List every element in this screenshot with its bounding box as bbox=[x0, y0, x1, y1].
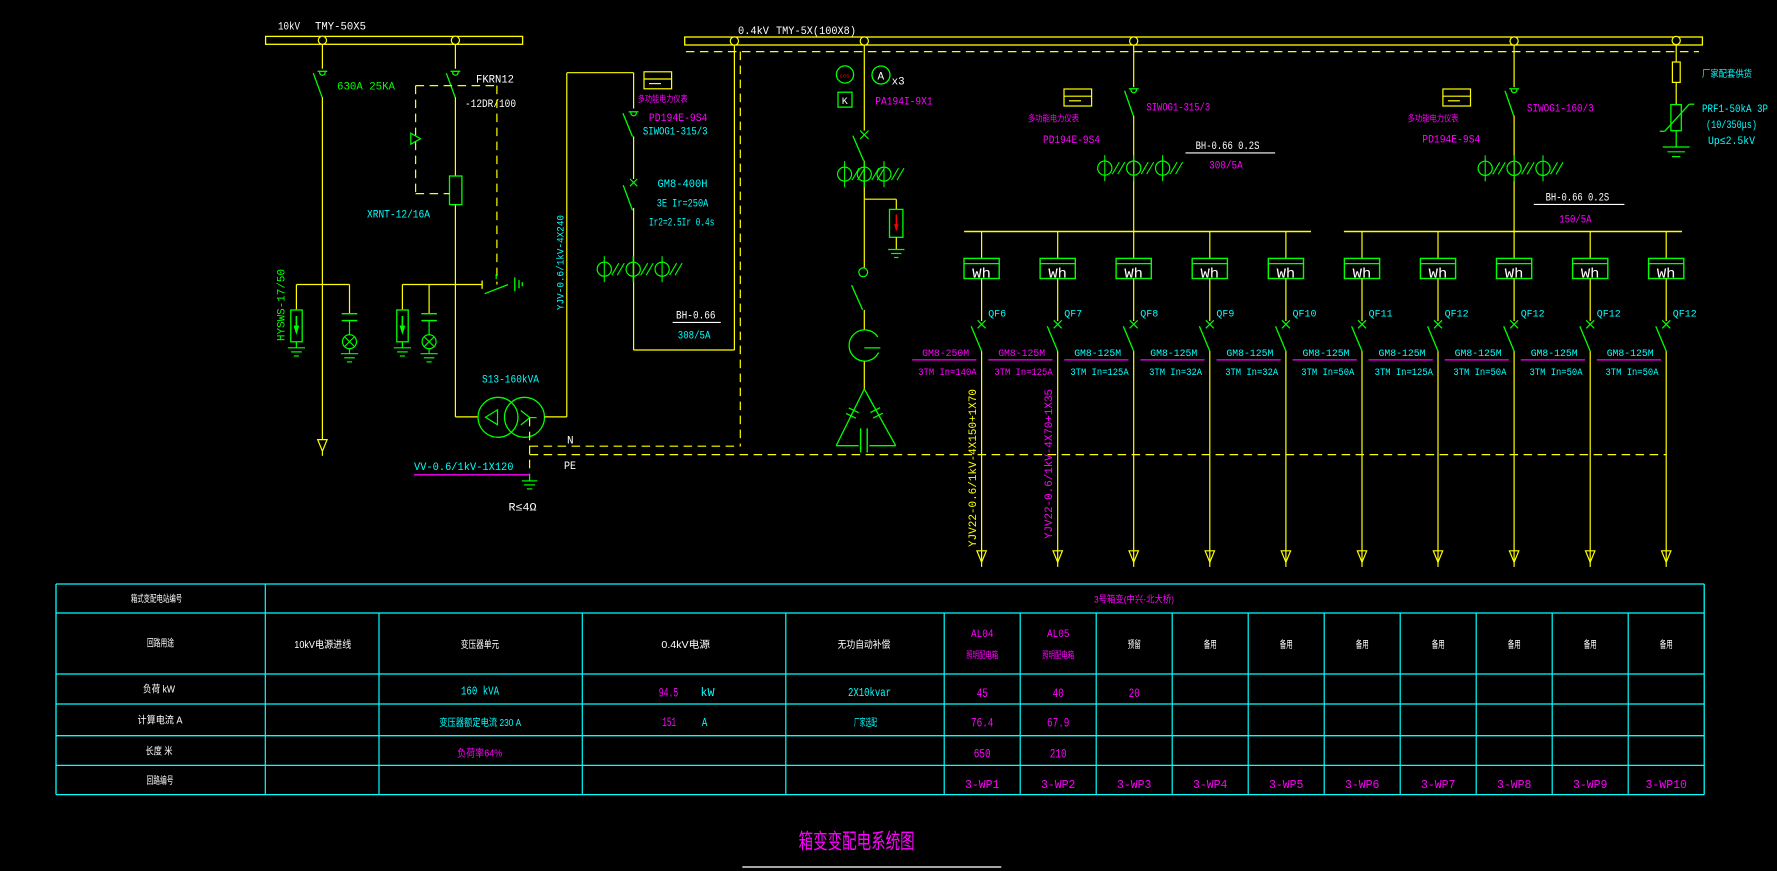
svg-text:BH-0.66 0.2S: BH-0.66 0.2S bbox=[1546, 193, 1610, 205]
svg-text:GM8-125M: GM8-125M bbox=[1379, 348, 1426, 360]
wire feeder 8 down to exit arrow bbox=[1513, 351, 1515, 562]
arrow outgoing feeder 6 bbox=[1357, 551, 1366, 563]
svg-text:S13-160kVA: S13-160kVA bbox=[482, 375, 539, 387]
svg-text:变压器单元: 变压器单元 bbox=[461, 638, 500, 651]
node junction on 10kV bus (feeder B) bbox=[451, 36, 459, 44]
svg-text:备用: 备用 bbox=[1660, 638, 1673, 651]
svg-text:3-WP10: 3-WP10 bbox=[1646, 778, 1687, 792]
svg-text:67.9: 67.9 bbox=[1047, 716, 1069, 730]
svg-text:BH-0.66: BH-0.66 bbox=[676, 311, 716, 323]
arrow outgoing feeder 1 bbox=[977, 551, 986, 563]
wire bbox=[1133, 116, 1135, 232]
cos-phi meter bbox=[836, 66, 853, 83]
fuse XRNT-12/16A bbox=[450, 176, 462, 205]
wire feeder 8 drop from bar bbox=[1513, 232, 1515, 259]
arrow outgoing feeder 3 bbox=[1129, 551, 1138, 563]
0.4kV busbar TMY-5X(100X8) bbox=[685, 37, 1703, 45]
wire feeder 10 drop from bar bbox=[1665, 232, 1667, 259]
wire feeder 5 drop from bar bbox=[1285, 232, 1287, 259]
fuse (SPD) bbox=[1672, 62, 1680, 82]
svg-text:GM8-125M: GM8-125M bbox=[1607, 348, 1654, 360]
svg-text:FKRN12: FKRN12 bbox=[476, 75, 514, 87]
wire feeder B below fuse to transformer bbox=[454, 205, 456, 417]
svg-text:GM8-125M: GM8-125M bbox=[1150, 348, 1197, 360]
svg-text:3-WP4: 3-WP4 bbox=[1193, 778, 1228, 792]
current transformers BH-0.66 0.2S 300/5A bbox=[1104, 155, 1106, 181]
svg-text:0.4kV: 0.4kV bbox=[738, 26, 769, 38]
svg-text:630A 25KA: 630A 25KA bbox=[337, 82, 395, 94]
wire feeder A drop from 10kV bus bbox=[321, 44, 323, 68]
svg-text:负荷 kW: 负荷 kW bbox=[143, 683, 175, 696]
svg-text:3-WP5: 3-WP5 bbox=[1269, 778, 1304, 792]
energy meter Wh (feeder 4) bbox=[1192, 258, 1227, 278]
svg-text:10kV: 10kV bbox=[278, 22, 300, 34]
capacitive indicator lamp (feeder A) bbox=[349, 285, 351, 314]
fuse/arrester with striker bbox=[890, 209, 903, 237]
wire bbox=[1589, 279, 1591, 322]
svg-text:3TM In=125A: 3TM In=125A bbox=[1375, 368, 1433, 379]
energy meter Wh (feeder 8) bbox=[1497, 258, 1532, 278]
wire bbox=[1675, 131, 1677, 147]
svg-text:3-WP6: 3-WP6 bbox=[1345, 778, 1380, 792]
disconnect switch SIWOG1-315/3 (group C) bbox=[1129, 88, 1139, 90]
svg-text:3-WP2: 3-WP2 bbox=[1041, 778, 1076, 792]
wire metering loop to 0.4kV bus bbox=[634, 349, 735, 351]
wire bbox=[1057, 279, 1059, 322]
wire feeder 3 drop from bar bbox=[1133, 232, 1135, 259]
wire branch to discharge arrester bbox=[864, 198, 896, 200]
svg-text:3TM In=125A: 3TM In=125A bbox=[1070, 368, 1128, 379]
table grid bbox=[56, 583, 1704, 585]
svg-text:TMY-5X(100X8): TMY-5X(100X8) bbox=[776, 26, 856, 38]
wire bbox=[1675, 82, 1677, 104]
svg-text:备用: 备用 bbox=[1432, 638, 1445, 651]
svg-text:GM8-125M: GM8-125M bbox=[998, 348, 1045, 360]
interlock indicator triangle bbox=[411, 133, 421, 144]
current transformers (compensation) bbox=[844, 161, 846, 187]
svg-text:QF12: QF12 bbox=[1521, 309, 1545, 321]
wire feeder 7 drop from bar bbox=[1437, 232, 1439, 259]
earthing switch on feeder B bbox=[481, 281, 483, 289]
svg-text:厂家选配: 厂家选配 bbox=[854, 716, 877, 729]
svg-text:备用: 备用 bbox=[1280, 638, 1293, 651]
svg-text:照明配电箱: 照明配电箱 bbox=[1042, 650, 1074, 662]
svg-text:VV-0.6/1kV-1X120: VV-0.6/1kV-1X120 bbox=[414, 462, 514, 474]
wire feeder 5 down to exit arrow bbox=[1285, 351, 1287, 562]
disconnect switch QS1 630A 25KA bbox=[318, 70, 328, 72]
10kV busbar TMY-50X5 bbox=[266, 36, 523, 44]
node junction on 10kV bus (feeder A) bbox=[318, 36, 326, 44]
svg-text:3-WP8: 3-WP8 bbox=[1497, 778, 1532, 792]
svg-text:3TM In=50A: 3TM In=50A bbox=[1453, 368, 1506, 379]
disconnect switch SIWOG1-315/3 bbox=[633, 73, 635, 109]
svg-text:3TM In=50A: 3TM In=50A bbox=[1530, 368, 1583, 379]
wire bbox=[1285, 279, 1287, 322]
svg-text:SIWOG1-160/3: SIWOG1-160/3 bbox=[1527, 104, 1594, 116]
wire bbox=[1665, 279, 1667, 322]
wire bbox=[1513, 116, 1515, 232]
svg-text:GM8-250M: GM8-250M bbox=[922, 348, 969, 360]
arrow outgoing feeder 10 bbox=[1662, 551, 1671, 563]
energy meter Wh (feeder 5) bbox=[1268, 258, 1303, 278]
svg-text:300/5A: 300/5A bbox=[1209, 161, 1243, 173]
svg-text:QF7: QF7 bbox=[1064, 309, 1082, 321]
svg-text:3E Ir=250A: 3E Ir=250A bbox=[657, 199, 709, 211]
wire feeder 3 down to exit arrow bbox=[1133, 351, 1135, 562]
disconnect switch QS2 (FKRN12) bbox=[451, 70, 461, 72]
svg-text:QF8: QF8 bbox=[1140, 309, 1158, 321]
wire bbox=[863, 310, 865, 330]
svg-text:照明配电箱: 照明配电箱 bbox=[966, 650, 998, 662]
earthing conductor VV-0.6/1kV-1X120 bbox=[414, 474, 530, 476]
wire tee (feeder B accessories) bbox=[402, 284, 482, 286]
energy meter Wh (feeder 7) bbox=[1420, 258, 1455, 278]
wire bbox=[1513, 279, 1515, 322]
current transformers BH-0.66 0.2S 150/5A bbox=[1484, 155, 1486, 181]
svg-text:210: 210 bbox=[1050, 747, 1067, 761]
energy meter Wh (feeder 9) bbox=[1573, 258, 1608, 278]
svg-text:QF11: QF11 bbox=[1369, 309, 1393, 321]
svg-text:308/5A: 308/5A bbox=[678, 331, 711, 343]
arrow outgoing feeder 9 bbox=[1586, 551, 1595, 563]
svg-text:箱变变配电系统图: 箱变变配电系统图 bbox=[799, 831, 915, 854]
svg-text:多功能电力仪表: 多功能电力仪表 bbox=[1408, 113, 1459, 124]
svg-text:SIWOG1-315/3: SIWOG1-315/3 bbox=[643, 127, 708, 139]
svg-text:PA194I-9X1: PA194I-9X1 bbox=[875, 97, 933, 109]
svg-text:3-WP3: 3-WP3 bbox=[1117, 778, 1152, 792]
arrow outgoing 10kV feeder A bbox=[318, 440, 327, 452]
wire bbox=[1437, 279, 1439, 322]
svg-text:3-WP7: 3-WP7 bbox=[1421, 778, 1456, 792]
svg-text:GM8-125M: GM8-125M bbox=[1074, 348, 1121, 360]
svg-text:R≤4Ω: R≤4Ω bbox=[509, 503, 537, 515]
svg-text:GM8-125M: GM8-125M bbox=[1226, 348, 1273, 360]
wire bbox=[863, 199, 865, 268]
svg-text:10kV电源进线: 10kV电源进线 bbox=[294, 638, 351, 651]
distribution bar D bbox=[1344, 231, 1682, 233]
svg-text:3TM In=140A: 3TM In=140A bbox=[918, 368, 976, 379]
svg-text:变压器额定电流 230 A: 变压器额定电流 230 A bbox=[439, 716, 521, 729]
svg-text:Ir2=2.5Ir 0.4s: Ir2=2.5Ir 0.4s bbox=[649, 218, 715, 230]
svg-text:3-WP1: 3-WP1 bbox=[965, 778, 1000, 792]
kWh meter (group D) bbox=[1443, 89, 1471, 106]
svg-text:3TM In=32A: 3TM In=32A bbox=[1225, 368, 1278, 379]
svg-text:0.4kV电源: 0.4kV电源 bbox=[661, 638, 710, 651]
svg-text:A: A bbox=[878, 72, 885, 84]
wire feeder 9 down to exit arrow bbox=[1589, 351, 1591, 562]
svg-text:无功自动补偿: 无功自动补偿 bbox=[838, 638, 891, 651]
wire bbox=[863, 361, 865, 390]
var meter K bbox=[838, 92, 852, 107]
svg-text:2X10kvar: 2X10kvar bbox=[848, 686, 891, 700]
svg-text:40: 40 bbox=[1053, 687, 1064, 701]
svg-text:(10/350μs): (10/350μs) bbox=[1706, 120, 1757, 132]
wire feeder 9 drop from bar bbox=[1589, 232, 1591, 259]
wire feeder 2 down to exit arrow bbox=[1057, 351, 1059, 562]
wire compensation branch drop bbox=[863, 45, 865, 131]
svg-text:备用: 备用 bbox=[1584, 638, 1597, 651]
svg-text:Up≤2.5kV: Up≤2.5kV bbox=[1708, 136, 1755, 148]
circuit breaker (compensation) bbox=[860, 131, 868, 139]
svg-text:AL04: AL04 bbox=[971, 629, 994, 641]
svg-text:厂家配套供货: 厂家配套供货 bbox=[1702, 68, 1752, 80]
svg-text:TMY-50X5: TMY-50X5 bbox=[315, 22, 366, 34]
wire group C incomer drop bbox=[1133, 45, 1135, 87]
energy meter Wh (feeder 10) bbox=[1649, 258, 1684, 278]
wire feeder B to fuse bbox=[454, 97, 456, 176]
wire feeder 7 down to exit arrow bbox=[1437, 351, 1439, 562]
wire bbox=[1209, 279, 1211, 322]
arrow outgoing feeder 7 bbox=[1433, 551, 1442, 563]
svg-text:备用: 备用 bbox=[1508, 638, 1521, 651]
svg-text:K: K bbox=[842, 97, 848, 108]
svg-text:3TM In=32A: 3TM In=32A bbox=[1149, 368, 1202, 379]
svg-text:备用: 备用 bbox=[1204, 638, 1217, 651]
wire transformer neutral (dashed) bbox=[529, 418, 531, 474]
svg-text:GM8-400H: GM8-400H bbox=[658, 179, 708, 191]
svg-text:GM8-125M: GM8-125M bbox=[1455, 348, 1502, 360]
wire feeder 1 down to exit arrow bbox=[981, 351, 983, 562]
svg-text:3号箱变(中兴-北大桥): 3号箱变(中兴-北大桥) bbox=[1094, 594, 1174, 606]
svg-text:3TM In=50A: 3TM In=50A bbox=[1301, 368, 1354, 379]
wire bbox=[633, 136, 635, 179]
disconnect switch SIWOG1-160/3 bbox=[1509, 88, 1519, 90]
surge arrester (feeder B) bbox=[401, 309, 403, 311]
svg-text:PD194E-9S4: PD194E-9S4 bbox=[649, 113, 708, 125]
interlock dashed boundary (fuse cubicle) bbox=[416, 85, 497, 87]
capacitor bank (delta) 2X10kvar bbox=[836, 389, 864, 446]
contactor KM bbox=[859, 268, 868, 277]
wire feeder 10 down to exit arrow bbox=[1665, 351, 1667, 562]
svg-text:76.4: 76.4 bbox=[971, 716, 993, 730]
svg-text:A: A bbox=[702, 716, 708, 730]
svg-text:150/5A: 150/5A bbox=[1559, 215, 1592, 227]
svg-text:650: 650 bbox=[974, 747, 991, 761]
svg-text:QF12: QF12 bbox=[1597, 309, 1621, 321]
wire feeder 4 drop from bar bbox=[1209, 232, 1211, 259]
current transformers BH-0.66 308/5A bbox=[603, 256, 605, 282]
svg-text:YJV-0.6/1kV-4X240: YJV-0.6/1kV-4X240 bbox=[556, 215, 568, 310]
wire N drop (dashed) bbox=[739, 52, 741, 447]
svg-text:箱式变配电站编号: 箱式变配电站编号 bbox=[131, 593, 182, 605]
svg-text:长度 米: 长度 米 bbox=[146, 745, 173, 758]
svg-text:QF9: QF9 bbox=[1216, 309, 1234, 321]
arrow outgoing feeder 8 bbox=[1509, 551, 1518, 563]
svg-text:151: 151 bbox=[662, 716, 676, 730]
wire feeder 1 drop from bar bbox=[981, 232, 983, 259]
svg-text:负荷率64%: 负荷率64% bbox=[457, 747, 502, 760]
distribution bar C bbox=[964, 231, 1311, 233]
grounding electrode of neutral bbox=[529, 474, 531, 481]
svg-text:GM8-125M: GM8-125M bbox=[1303, 348, 1350, 360]
wire bbox=[1133, 279, 1135, 322]
svg-text:QF12: QF12 bbox=[1673, 309, 1697, 321]
N conductor (dashed) bbox=[530, 445, 741, 447]
svg-text:SIWOG1-315/3: SIWOG1-315/3 bbox=[1146, 103, 1210, 115]
svg-text:YJV22-0.6/1kV-4X150+1X70: YJV22-0.6/1kV-4X150+1X70 bbox=[968, 389, 980, 547]
svg-text:预留: 预留 bbox=[1128, 638, 1141, 651]
energy meter Wh (feeder 1) bbox=[964, 258, 999, 278]
svg-text:PD194E-9S4: PD194E-9S4 bbox=[1043, 135, 1100, 147]
svg-text:PD194E-9S4: PD194E-9S4 bbox=[1422, 135, 1480, 147]
svg-text:x3: x3 bbox=[892, 77, 905, 89]
svg-text:多功能电力仪表: 多功能电力仪表 bbox=[1028, 113, 1079, 124]
wire transformer secondary riser YJV-0.6/1kV-4X240 bbox=[545, 416, 567, 418]
svg-text:备用: 备用 bbox=[1356, 638, 1369, 651]
surge arrester HYSWS-17/50 (feeder A) bbox=[295, 309, 297, 311]
wire tee (feeder A accessories) bbox=[296, 284, 349, 286]
energy meter Wh (feeder 6) bbox=[1344, 258, 1379, 278]
wire feeder 4 down to exit arrow bbox=[1209, 351, 1211, 562]
svg-text:3-WP9: 3-WP9 bbox=[1573, 778, 1608, 792]
svg-text:BH-0.66 0.2S: BH-0.66 0.2S bbox=[1196, 141, 1260, 153]
N busbar (dashed) under 0.4kV bus bbox=[686, 51, 1699, 53]
svg-text:HYSWS-17/50: HYSWS-17/50 bbox=[277, 269, 289, 341]
svg-text:-12DR/100: -12DR/100 bbox=[465, 99, 516, 111]
wire group D incomer drop bbox=[1513, 45, 1515, 87]
svg-text:kW: kW bbox=[701, 686, 716, 700]
wire feeder A down to arrester tee bbox=[321, 97, 323, 439]
wire feeder 2 drop from bar bbox=[1057, 232, 1059, 259]
svg-text:3TM In=125A: 3TM In=125A bbox=[994, 368, 1052, 379]
arrow outgoing feeder 2 bbox=[1053, 551, 1062, 563]
svg-text:YJV22-0.6/1kV-4X70+1X35: YJV22-0.6/1kV-4X70+1X35 bbox=[1044, 389, 1056, 539]
svg-text:QF12: QF12 bbox=[1445, 309, 1469, 321]
svg-text:回路编号: 回路编号 bbox=[147, 774, 174, 787]
svg-text:N: N bbox=[567, 436, 574, 448]
wire feeder 6 down to exit arrow bbox=[1361, 351, 1363, 562]
PE conductor (dashed) bbox=[530, 454, 1667, 456]
svg-text:计算电流 A: 计算电流 A bbox=[138, 714, 183, 727]
thermal element / starter arc bbox=[849, 330, 878, 361]
wire bbox=[633, 208, 635, 350]
svg-text:GM8-125M: GM8-125M bbox=[1531, 348, 1578, 360]
svg-text:20: 20 bbox=[1129, 687, 1140, 701]
surge protective device PRF1-50kA 3P bbox=[1671, 105, 1681, 131]
svg-text:QF10: QF10 bbox=[1293, 309, 1317, 321]
wire bbox=[981, 279, 983, 322]
svg-text:回路用途: 回路用途 bbox=[147, 637, 174, 650]
svg-text:94.5: 94.5 bbox=[659, 687, 679, 701]
capacitive indicator lamp (feeder B) bbox=[428, 285, 430, 314]
node junctions on 0.4kV bus bbox=[730, 37, 738, 45]
wire bbox=[863, 161, 865, 200]
svg-text:XRNT-12/16A: XRNT-12/16A bbox=[367, 210, 430, 222]
wire feeder B drop from 10kV bus bbox=[454, 44, 456, 68]
wire bbox=[1361, 279, 1363, 322]
svg-text:多功能电力仪表: 多功能电力仪表 bbox=[638, 93, 688, 104]
svg-text:PRF1-50kA 3P: PRF1-50kA 3P bbox=[1702, 104, 1768, 116]
arrow outgoing feeder 4 bbox=[1205, 551, 1214, 563]
circuit breaker GM8-400H bbox=[630, 179, 637, 186]
svg-text:3TM In=50A: 3TM In=50A bbox=[1606, 368, 1659, 379]
svg-text:QF6: QF6 bbox=[988, 309, 1006, 321]
svg-text:160 kVA: 160 kVA bbox=[461, 685, 500, 699]
kWh meter (multi-function) bbox=[644, 72, 672, 89]
wire feeder 6 drop from bar bbox=[1361, 232, 1363, 259]
svg-text:AL05: AL05 bbox=[1047, 629, 1070, 641]
energy meter Wh (feeder 2) bbox=[1040, 258, 1075, 278]
kWh meter (group C) bbox=[1064, 89, 1092, 106]
svg-text:cos: cos bbox=[840, 73, 850, 80]
energy meter Wh (feeder 3) bbox=[1116, 258, 1151, 278]
ammeter A x3 bbox=[872, 66, 890, 84]
svg-text:PE: PE bbox=[564, 461, 576, 473]
wire SPD branch drop bbox=[1675, 45, 1677, 62]
arrow outgoing feeder 5 bbox=[1281, 551, 1290, 563]
svg-text:45: 45 bbox=[977, 687, 988, 701]
